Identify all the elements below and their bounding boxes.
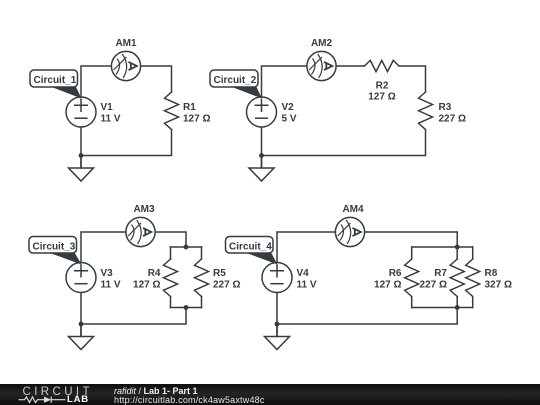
svg-text:11 V: 11 V (101, 114, 121, 125)
ground (265, 324, 290, 350)
wire R3 bottom to bottom rail (262, 130, 426, 156)
svg-text:R5: R5 (213, 268, 226, 279)
node junction bottom of R6 R7 R8 (455, 305, 460, 310)
ammeter AM2 (307, 51, 336, 80)
wire V1 bottom to ground (80, 128, 82, 169)
node junction at V2 bottom (259, 153, 264, 158)
svg-text:AM3: AM3 (133, 204, 155, 215)
svg-text:R6: R6 (389, 268, 402, 279)
svg-text:127 Ω: 127 Ω (368, 92, 395, 103)
svg-text:R2: R2 (376, 80, 389, 91)
wire V1 top to AM1 left (81, 66, 111, 97)
wire bottom junction to bottom rail to V3 (81, 308, 186, 325)
wire parallel bottom rail (412, 307, 473, 309)
wire AM1 right to R1 top (141, 66, 172, 92)
svg-text:5 V: 5 V (282, 114, 297, 125)
wire R2 right to R3 top (399, 66, 426, 92)
ammeter AM3 (126, 217, 155, 246)
resistor R7 (450, 247, 464, 308)
svg-text:127 Ω: 127 Ω (133, 280, 160, 291)
resistor R6 (405, 247, 419, 308)
svg-text:327 Ω: 327 Ω (485, 280, 512, 291)
svg-text:227 Ω: 227 Ω (213, 280, 240, 291)
node label Circuit_1 (30, 70, 82, 99)
wire parallel top rail (412, 246, 473, 248)
footer text line 2 (114, 396, 265, 405)
wire parallel top rail (171, 246, 202, 248)
wire AM3 right to parallel top junction (155, 232, 186, 247)
resistor R8 (466, 247, 480, 308)
ground (249, 156, 274, 182)
svg-text:R1: R1 (183, 102, 196, 113)
footer text line 1 (114, 387, 198, 396)
svg-text:R3: R3 (439, 102, 452, 113)
voltage source V2 (247, 97, 277, 127)
node junction top of R6 R7 R8 (455, 245, 460, 250)
wire R1 bottom to bottom rail (81, 130, 172, 156)
wire AM4 right to parallel top junction (365, 232, 457, 247)
resistor R3 (419, 92, 433, 130)
footer bar (0, 384, 540, 405)
svg-text:11 V: 11 V (297, 280, 317, 291)
node label Circuit_4 (226, 237, 278, 265)
resistor R2 (365, 60, 400, 71)
resistor R1 (165, 92, 179, 130)
svg-text:R8: R8 (485, 268, 498, 279)
CircuitLab logo wordmark (23, 387, 93, 398)
voltage source V3 (66, 263, 96, 293)
wire parallel bottom rail (171, 307, 202, 309)
svg-text:V1: V1 (101, 102, 114, 113)
wire V3 bottom to ground (80, 293, 82, 337)
svg-text:Circuit_4: Circuit_4 (229, 242, 272, 253)
svg-text:AM1: AM1 (115, 38, 137, 49)
ammeter AM1 (111, 51, 140, 80)
svg-text:Circuit_1: Circuit_1 (34, 75, 77, 86)
node junction at V3 bottom (79, 322, 84, 327)
node label Circuit_3 (29, 237, 82, 265)
wire V2 top to AM2 left (262, 66, 307, 97)
resistor R4 (164, 247, 178, 308)
node label Circuit_2 (210, 70, 262, 99)
wire V4 top to AM4 left (277, 232, 335, 263)
wire V4 bottom to ground (276, 293, 278, 337)
wire bottom junction to bottom rail to V4 (277, 308, 457, 325)
voltage source V4 (262, 263, 292, 293)
svg-text:127 Ω: 127 Ω (183, 114, 210, 125)
svg-text:R4: R4 (148, 268, 161, 279)
resistor R5 (195, 247, 209, 308)
node junction at V1 bottom (79, 153, 84, 158)
wire V2 bottom to ground (261, 128, 263, 169)
svg-text:Circuit_2: Circuit_2 (214, 75, 257, 86)
voltage source V1 (66, 97, 96, 127)
svg-text:V2: V2 (282, 102, 295, 113)
svg-text:227 Ω: 227 Ω (420, 280, 447, 291)
svg-text:R7: R7 (434, 268, 447, 279)
svg-text:11 V: 11 V (101, 280, 121, 291)
svg-text:V4: V4 (297, 268, 310, 279)
logo resistor-diode squiggle (18, 395, 66, 405)
ground (69, 324, 94, 350)
svg-text:AM2: AM2 (311, 38, 333, 49)
svg-text:AM4: AM4 (342, 204, 364, 215)
svg-text:227 Ω: 227 Ω (439, 114, 466, 125)
node junction top of R4 R5 (184, 245, 189, 250)
svg-text:Circuit_3: Circuit_3 (33, 242, 76, 253)
node junction bottom of R4 R5 (184, 305, 189, 310)
svg-text:127 Ω: 127 Ω (374, 280, 401, 291)
ground (69, 156, 94, 182)
node junction at V4 bottom (275, 322, 280, 327)
svg-text:V3: V3 (101, 268, 114, 279)
wire V3 top to AM3 left (81, 232, 126, 263)
ammeter AM4 (335, 217, 364, 246)
wire AM2 right to R2 left (336, 65, 364, 67)
